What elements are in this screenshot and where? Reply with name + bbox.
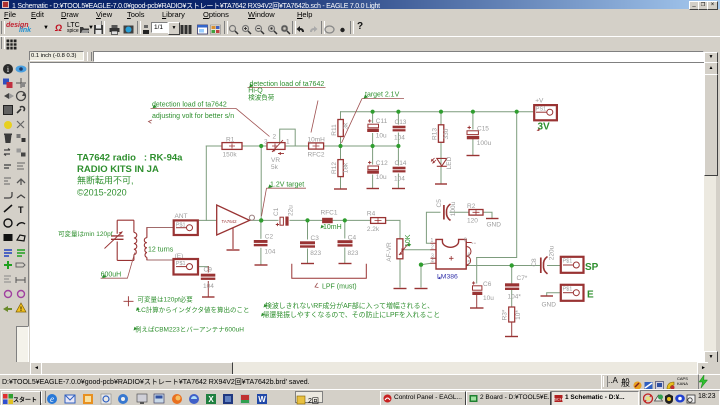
wire C3 branch — [307, 220, 309, 262]
svg-text:10mH: 10mH — [308, 136, 326, 143]
r15: junction / label — [4, 261, 12, 269]
junction C11 supply node — [371, 110, 375, 114]
ground under TA7642 — [227, 249, 240, 251]
ground under C12 — [367, 188, 380, 190]
svg-text:1: 1 — [286, 139, 290, 146]
tank circuit: variable capacitor + bar antenna coil L1 — [105, 220, 147, 260]
capacitor C9 — [201, 267, 216, 291]
svg-text:10K: 10K — [405, 234, 412, 247]
r2: copy / move — [3, 79, 9, 85]
wire pin4 junction to gnd — [420, 265, 422, 287]
ground under C14 — [392, 188, 405, 190]
capacitor C5 — [436, 199, 457, 221]
menu bar — [0, 9, 720, 19]
wire R12 branch — [340, 146, 342, 188]
trimmer AF-VR 10K — [386, 239, 408, 262]
wire VR wiper loop — [280, 129, 296, 146]
antenna connector ANT — [174, 213, 198, 235]
ground under R3 — [505, 336, 518, 338]
LED1 — [431, 156, 453, 169]
ground under LM386 pin4 — [415, 288, 428, 290]
svg-text:5k: 5k — [271, 164, 279, 171]
capacitor C6 — [472, 281, 494, 302]
wire C5 to R2 — [450, 211, 469, 213]
undo / redo — [295, 22, 306, 33]
junction R11/R12 divider node — [338, 144, 342, 148]
svg-text:R2: R2 — [467, 203, 476, 210]
capacitor C3 — [300, 235, 322, 257]
junction battery supply node — [515, 110, 519, 114]
earth connector (E) — [174, 253, 199, 275]
svg-text:C7*: C7* — [517, 275, 528, 282]
capacitor C1 — [273, 205, 295, 226]
op-amp IC2 LM386 — [431, 238, 477, 281]
capacitor C13 — [393, 119, 407, 142]
svg-text:R13: R13 — [432, 128, 439, 140]
IC1 TA7642 — [217, 205, 255, 249]
junction R13 supply node — [439, 110, 443, 114]
wire C4 branch — [344, 220, 346, 262]
svg-text:E: E — [587, 290, 594, 301]
r12: circle / arc — [4, 219, 12, 227]
svg-text:LED: LED — [446, 156, 453, 169]
lightning icon — [698, 375, 709, 388]
svg-text:C13: C13 — [395, 119, 407, 126]
resistor R11 — [331, 120, 350, 137]
r17: erc circles — [5, 291, 12, 298]
svg-text:18k: 18k — [343, 162, 350, 173]
junction LM386 output node — [510, 263, 514, 267]
help — [357, 21, 363, 32]
ground under LED — [435, 183, 447, 185]
svg-text:C3: C3 — [311, 235, 320, 242]
svg-text:P$1: P$1 — [176, 223, 186, 229]
svg-text:SP: SP — [585, 262, 599, 273]
wire wiper to LM386 pin2 — [405, 249, 431, 251]
svg-text:C14: C14 — [395, 160, 407, 167]
colorful icon — [210, 22, 221, 33]
wire LM386 output to SP — [466, 265, 561, 267]
wire E-SP ground link — [547, 293, 561, 296]
svg-text:C15: C15 — [477, 126, 489, 133]
status bar — [0, 374, 720, 390]
svg-text:C9: C9 — [204, 267, 213, 274]
svg-text:TA7642 radio : RK-94a: TA7642 radio : RK-94a — [77, 153, 183, 164]
junction C11/C12 node — [371, 144, 375, 148]
svg-text:RFC1: RFC1 — [321, 210, 338, 217]
svg-text:R4: R4 — [367, 211, 376, 218]
zoom icons x5 — [228, 22, 239, 33]
wire R2 to gnd — [483, 212, 492, 218]
IME toolbar — [601, 374, 699, 390]
speaker connector SP — [561, 257, 599, 273]
svg-text:4: 4 — [431, 258, 434, 264]
svg-text:104: 104 — [265, 249, 276, 256]
r1: info / display — [3, 64, 13, 74]
r6: delete / add — [5, 135, 12, 143]
svg-text:10u: 10u — [376, 133, 387, 140]
left tool palette — [0, 62, 29, 374]
svg-text:1: 1 — [431, 238, 434, 244]
coordinate bar — [0, 50, 720, 62]
wire C11 branch — [372, 112, 374, 146]
svg-text:SCH: SCH — [554, 397, 563, 402]
r5: paste-yellow / cut — [4, 121, 12, 129]
language box — [295, 391, 323, 403]
junction C13 supply node — [396, 110, 400, 114]
quick launch icons — [45, 392, 275, 404]
grid III icon — [180, 22, 191, 33]
svg-text:120: 120 — [467, 218, 478, 225]
svg-text:P$1: P$1 — [176, 261, 186, 267]
svg-text:無断転用不可,: 無断転用不可, — [77, 175, 134, 186]
svg-text:10u: 10u — [483, 295, 494, 302]
svg-text:C4: C4 — [348, 235, 357, 242]
origin cross mark — [124, 296, 134, 306]
svg-text:10*: 10* — [515, 310, 522, 320]
svg-text:100u: 100u — [450, 201, 457, 216]
svg-text:2: 2 — [431, 245, 434, 251]
r14: bus / net — [4, 250, 12, 256]
resistor R2 — [467, 203, 501, 229]
junction C4 node — [343, 218, 347, 222]
battery connector PS1 3V — [534, 98, 557, 133]
wire R11 branch — [340, 112, 342, 146]
wire C12 branch — [372, 146, 374, 188]
save — [93, 22, 104, 33]
wire coil to E connector — [147, 259, 174, 261]
svg-text:6: 6 — [468, 253, 471, 259]
toolbar row 1 — [0, 19, 720, 37]
wire E connector to C9 — [187, 266, 209, 268]
svg-text:検波しきれないRF成分がAF部に入って増幅されると、: 検波しきれないRF成分がAF部に入って増幅されると、 — [265, 301, 434, 310]
wire C7 to R3 — [511, 290, 513, 307]
wire supply drop to LM386 pin6 — [477, 112, 517, 258]
canvas — [30, 62, 704, 362]
r10: miter / split — [4, 192, 12, 198]
inductor RFC1 — [321, 210, 338, 224]
title bar — [0, 0, 720, 9]
svg-text:R11: R11 — [331, 124, 338, 136]
svg-text:C6: C6 — [483, 281, 492, 288]
taskbar — [0, 389, 720, 405]
svg-text:100u: 100u — [477, 140, 492, 147]
svg-text:+V: +V — [535, 98, 544, 105]
svg-text:LPF (must): LPF (must) — [322, 284, 357, 291]
resistor R12 — [331, 160, 350, 177]
system tray — [640, 390, 720, 405]
wire signal rail y220.4 — [198, 220, 400, 242]
svg-text:detection load of ta7642: detection load of ta7642 — [152, 102, 227, 109]
wire vertical detector node drop — [260, 146, 262, 220]
svg-text:823: 823 — [310, 250, 321, 257]
r13: rect / polygon — [4, 234, 13, 241]
svg-text:!: ! — [20, 307, 22, 313]
toolbar row 2 — [0, 36, 720, 51]
svg-text:AF-VR: AF-VR — [386, 242, 393, 262]
task buttons — [380, 391, 466, 405]
r9: value / smash — [4, 178, 11, 184]
svg-text:C5: C5 — [436, 199, 443, 208]
svg-text:104: 104 — [394, 176, 405, 183]
svg-text:X: X — [208, 395, 214, 404]
svg-text:target 2.1V: target 2.1V — [365, 92, 400, 99]
svg-text:RADIO KITS IN JA: RADIO KITS IN JA — [77, 164, 159, 175]
r16: attribute / dimension — [4, 276, 11, 282]
svg-text:GND: GND — [542, 302, 557, 309]
junction LM386 pin4 ground node — [419, 263, 423, 267]
wire C5 left loop to pin1 — [426, 212, 440, 243]
svg-text:3: 3 — [264, 139, 268, 146]
capacitor C14 — [393, 160, 407, 183]
resistor R1 — [222, 137, 242, 159]
svg-text:C1: C1 — [273, 207, 280, 216]
ground under R12 — [334, 188, 347, 190]
wire R3 to gnd — [511, 322, 513, 336]
leader lines — [101, 88, 404, 288]
svg-text:P$1: P$1 — [563, 259, 573, 265]
svg-text:330: 330 — [443, 128, 450, 139]
junction C15 supply node — [471, 110, 475, 114]
junction detector node at R1/VR — [259, 144, 263, 148]
horizontal scrollbar — [30, 362, 708, 374]
svg-text:P$1: P$1 — [563, 287, 573, 293]
resistor R13 — [432, 125, 451, 143]
grid button — [6, 38, 17, 49]
ground under C15 — [467, 155, 480, 157]
wire C2 branch — [260, 220, 262, 264]
resistor R4 — [367, 211, 386, 234]
svg-text:600uH: 600uH — [101, 272, 122, 279]
svg-text:Hi-Q: Hi-Q — [248, 88, 263, 95]
r8: gateswap / name — [4, 165, 11, 168]
open — [79, 22, 90, 33]
svg-text:帰還発振しやすくなるので、その防止にLPFを入れること: 帰還発振しやすくなるので、その防止にLPFを入れること — [263, 310, 441, 319]
svg-text:2: 2 — [273, 134, 277, 141]
svg-text:C12: C12 — [376, 160, 388, 167]
svg-text:10mH: 10mH — [323, 224, 342, 231]
svg-text:8: 8 — [464, 238, 467, 244]
svg-text:R3*: R3* — [502, 309, 509, 320]
svg-text:ANT: ANT — [175, 213, 188, 220]
r4: group / change — [4, 106, 13, 115]
svg-text:R12: R12 — [331, 162, 338, 174]
junction C3 node — [305, 218, 309, 222]
ground near E connector — [541, 295, 554, 297]
svg-text:GND: GND — [487, 222, 502, 229]
r18: erc / errors — [3, 306, 12, 312]
ground under C9 — [202, 296, 215, 298]
r3: mirror / rotate — [4, 93, 9, 99]
ground under C2 — [255, 264, 268, 266]
svg-text:104: 104 — [203, 283, 214, 290]
wire junction to pin4 — [421, 263, 431, 264]
svg-text:可変量はmin 120pf: 可変量はmin 120pf — [58, 229, 113, 238]
capacitor C2 — [254, 234, 276, 256]
stop / go — [324, 22, 335, 33]
image export — [123, 22, 134, 33]
wire AF-VR to ground — [399, 259, 401, 287]
svg-text:10u: 10u — [376, 174, 387, 181]
start button — [1, 391, 41, 405]
wire C6 branch — [476, 258, 478, 284]
svg-text:VR: VR — [271, 157, 280, 164]
svg-text:TA7642: TA7642 — [222, 219, 238, 224]
capacitor C8 — [531, 245, 556, 274]
annotation arrows green — [102, 84, 411, 331]
capacitor C4 — [338, 235, 359, 258]
svg-text:104*: 104* — [508, 294, 522, 301]
junction TA7642 output node — [259, 218, 263, 222]
wire top supply rail y111.7 — [341, 111, 535, 113]
svg-text:823: 823 — [348, 250, 359, 257]
ground under C4 — [339, 263, 352, 265]
green annotations — [58, 81, 440, 334]
svg-text:220u: 220u — [549, 245, 556, 260]
ground under C3 — [301, 263, 314, 265]
svg-text:2回: 2回 — [308, 397, 319, 405]
inductor RFC2 10mH — [308, 136, 326, 158]
svg-text:104: 104 — [394, 135, 405, 142]
trimmer VR 5k — [264, 134, 290, 172]
window blue icon — [197, 22, 208, 33]
svg-text:3V: 3V — [538, 122, 551, 133]
svg-text:©2015-2020: ©2015-2020 — [77, 188, 127, 198]
wire C9 vertical — [207, 267, 209, 297]
junction C13/C14 node — [396, 144, 400, 148]
capacitor C15 — [467, 126, 492, 148]
svg-text:例えばCBM223とバーアンテナ600uH: 例えばCBM223とバーアンテナ600uH — [135, 325, 244, 334]
earth connector E (output side) — [542, 285, 595, 309]
svg-text:C8: C8 — [531, 258, 538, 267]
wire C6 to gnd — [476, 295, 478, 307]
svg-text:5: 5 — [468, 260, 471, 266]
wire vertical R1-left drop to ANT net — [205, 146, 207, 220]
svg-text:C11: C11 — [376, 118, 388, 125]
vertical scrollbar — [704, 62, 716, 362]
sheet combo 1/1 — [151, 22, 168, 33]
resistor R3 — [502, 307, 523, 322]
svg-text:W: W — [258, 395, 266, 404]
ground under AF-VR — [394, 288, 407, 290]
r7: pinswap / replace — [4, 149, 10, 156]
svg-text:150k: 150k — [223, 152, 238, 159]
capacitor C12 — [367, 160, 388, 181]
junction E connector pin node — [184, 264, 188, 268]
wire mid rail y146 — [206, 145, 398, 147]
svg-text:PS1: PS1 — [536, 107, 546, 113]
svg-text:R1: R1 — [226, 137, 235, 144]
svg-text:LC計算からインダクタ値を算出のこと: LC計算からインダクタ値を算出のこと — [138, 305, 250, 314]
svg-text:T: T — [18, 205, 24, 215]
svg-text:22u: 22u — [287, 205, 294, 216]
svg-text:1.2V target: 1.2V target — [270, 182, 304, 189]
ground under C6 — [470, 307, 484, 309]
capacitor C7 — [505, 275, 528, 301]
capacitor C11 — [367, 118, 387, 139]
wire C15 branch — [472, 112, 474, 155]
svg-text:adjusting volt for better s/n: adjusting volt for better s/n — [152, 113, 234, 120]
wire output to C7 — [511, 266, 513, 284]
LPF bracket — [292, 264, 367, 279]
script icon — [142, 22, 153, 33]
svg-text:C2: C2 — [265, 234, 274, 241]
svg-text:可変量は120pf必要: 可変量は120pf必要 — [138, 295, 194, 304]
svg-text:検波負荷: 検波負荷 — [248, 93, 274, 102]
svg-text:e: e — [50, 394, 54, 404]
wire R13-LED branch — [440, 112, 442, 183]
svg-text:RFC2: RFC2 — [308, 152, 325, 159]
r11: wire / text — [4, 205, 12, 212]
wire coil to ANT — [147, 227, 174, 229]
wire C14 branch — [397, 146, 399, 188]
svg-text:2.2k: 2.2k — [367, 226, 380, 233]
wire C13 branch — [397, 112, 399, 146]
ground at R2 — [486, 218, 499, 220]
svg-text:12 turns: 12 turns — [148, 247, 174, 254]
